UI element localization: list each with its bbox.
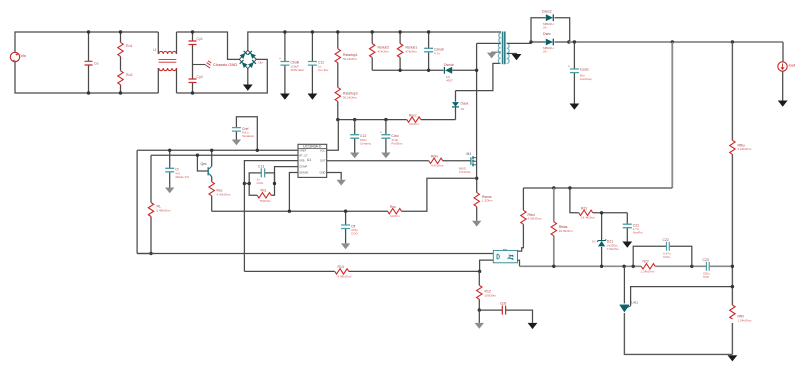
capacitor Cy1 bbox=[189, 32, 203, 65]
capacitor Cp5 bbox=[479, 301, 532, 323]
diode Daux bbox=[452, 91, 469, 120]
svg-text:1kOhm: 1kOhm bbox=[390, 214, 400, 218]
resistor R13 bbox=[335, 265, 480, 278]
ground Ct bbox=[165, 188, 174, 194]
svg-text:750Ohm: 750Ohm bbox=[260, 199, 272, 203]
svg-text:+: + bbox=[568, 65, 570, 69]
svg-text:JointCap: JointCap bbox=[580, 77, 592, 81]
wire opto cathode riser bbox=[480, 260, 494, 271]
ground Rsens bbox=[472, 221, 481, 227]
wire bridge top output bbox=[248, 32, 501, 50]
svg-text:20.5kOhm: 20.5kOhm bbox=[559, 229, 573, 233]
svg-text:Rvcc: Rvcc bbox=[409, 114, 417, 118]
resistor Ru2 bbox=[118, 71, 133, 93]
svg-text:C23: C23 bbox=[703, 258, 709, 262]
svg-text:4.99kOhm: 4.99kOhm bbox=[338, 274, 352, 278]
capacitor C21 bbox=[623, 213, 643, 242]
svg-text:X7R: X7R bbox=[703, 275, 710, 279]
source Vin bbox=[10, 52, 26, 61]
ground bridge bbox=[243, 69, 253, 91]
svg-text:1.3Ohm: 1.3Ohm bbox=[482, 199, 493, 203]
diode Dsec bbox=[529, 32, 569, 53]
svg-text:SENSE: SENSE bbox=[299, 171, 308, 175]
svg-text:dRatio:0.5: dRatio:0.5 bbox=[175, 175, 189, 179]
svg-text:5V: 5V bbox=[592, 240, 596, 244]
capacitor C13 bbox=[249, 164, 274, 185]
wire drain line bbox=[476, 43, 478, 155]
ground Cft bbox=[341, 243, 350, 249]
capacitor Cy2 bbox=[189, 65, 203, 94]
svg-text:Daux: Daux bbox=[461, 102, 469, 106]
svg-text:100Ohm: 100Ohm bbox=[485, 293, 497, 297]
diode Dsec2 bbox=[531, 10, 571, 44]
resistor Rstartup2 bbox=[335, 87, 358, 119]
svg-text:R22: R22 bbox=[643, 260, 649, 264]
svg-text:+: + bbox=[380, 131, 382, 135]
svg-text:Cy1: Cy1 bbox=[197, 37, 203, 41]
svg-text:COG: COG bbox=[351, 232, 359, 236]
svg-text:Dsec: Dsec bbox=[543, 32, 551, 36]
svg-text:VREF: VREF bbox=[299, 148, 307, 152]
svg-text:+: + bbox=[279, 57, 281, 61]
ground Cp5 bbox=[528, 323, 538, 329]
svg-text:2A: 2A bbox=[543, 49, 547, 53]
resistor R21 bbox=[570, 188, 627, 220]
svg-text:OUT: OUT bbox=[320, 159, 326, 163]
resistor Rsens bbox=[474, 177, 493, 221]
svg-text:47kOhm: 47kOhm bbox=[378, 49, 390, 53]
ground transformer secondary tap bbox=[507, 53, 522, 60]
resistor RL bbox=[137, 150, 171, 255]
svg-text:Ceramic: Ceramic bbox=[360, 141, 372, 145]
wire secondary control rail bbox=[523, 187, 672, 189]
svg-text:Rdrv: Rdrv bbox=[431, 155, 438, 159]
resistor R12 bbox=[477, 271, 497, 311]
wire pin OUT gate line bbox=[327, 160, 429, 162]
resistor Rdrv bbox=[429, 155, 471, 168]
capacitor Cvcc bbox=[380, 120, 403, 153]
svg-text:47kOhm: 47kOhm bbox=[406, 49, 418, 53]
wire pin VCC bbox=[327, 120, 339, 151]
wire current sense line bbox=[212, 178, 477, 211]
capacitor Csnub bbox=[424, 30, 444, 70]
diode D21 zener bbox=[592, 211, 619, 266]
svg-text:M1: M1 bbox=[467, 152, 472, 156]
ground Cout1 bbox=[570, 104, 580, 110]
svg-text:1N: 1N bbox=[461, 107, 465, 111]
svg-text:Cout1: Cout1 bbox=[580, 68, 589, 72]
svg-text:Ru1: Ru1 bbox=[126, 44, 133, 48]
svg-text:Cy2: Cy2 bbox=[197, 75, 203, 79]
node Chassis GND bbox=[191, 30, 238, 94]
resistor Rbias bbox=[551, 188, 573, 266]
resistor R11 bbox=[243, 182, 276, 203]
svg-text:450V Elec: 450V Elec bbox=[291, 68, 305, 72]
ground secondary bottom bbox=[728, 355, 738, 361]
svg-text:Cer 2kv: Cer 2kv bbox=[318, 68, 329, 72]
ground R12 bbox=[475, 310, 484, 329]
svg-text:Ru2: Ru2 bbox=[126, 73, 133, 77]
svg-text:Cp5: Cp5 bbox=[500, 301, 506, 305]
resistor Rec bbox=[209, 176, 231, 211]
wire secondary common line bbox=[520, 265, 733, 267]
resistor Rsnub1 bbox=[397, 30, 417, 70]
svg-text:4.42kOhm: 4.42kOhm bbox=[217, 192, 231, 196]
svg-text:Dsnub: Dsnub bbox=[444, 63, 454, 67]
svg-text:1.24kOhm: 1.24kOhm bbox=[738, 318, 752, 322]
svg-text:1.24kOhm: 1.24kOhm bbox=[641, 270, 655, 274]
svg-text:R21: R21 bbox=[581, 206, 587, 210]
wire output rail bbox=[569, 41, 783, 43]
svg-text:VCC: VCC bbox=[320, 148, 326, 152]
node input top junctions bbox=[87, 30, 122, 94]
svg-text:Tantalum: Tantalum bbox=[242, 134, 255, 138]
svg-text:VFB: VFB bbox=[299, 159, 304, 163]
svg-text:R13: R13 bbox=[338, 265, 344, 269]
svg-text:2A: 2A bbox=[543, 25, 547, 29]
svg-text:Vin: Vin bbox=[21, 53, 27, 58]
capacitor Cref bbox=[232, 117, 259, 152]
svg-text:UC1843A-D: UC1843A-D bbox=[303, 145, 322, 149]
svg-text:10Ohm: 10Ohm bbox=[409, 122, 419, 126]
wire pin SENSE bbox=[289, 173, 298, 212]
wire vref to opto anode bbox=[137, 253, 493, 255]
capacitor C23 bbox=[703, 258, 711, 279]
shunt regulator U4 TL431 bbox=[620, 266, 639, 312]
resistor R22 bbox=[641, 260, 656, 274]
capacitor Cft bbox=[341, 210, 358, 244]
svg-text:GND: GND bbox=[320, 171, 326, 175]
diode bridge Dbr bbox=[239, 50, 263, 68]
svg-text:4.22kOhm: 4.22kOhm bbox=[738, 147, 752, 151]
ground transformer primary tap bbox=[487, 52, 501, 58]
svg-text:56.2kOhm: 56.2kOhm bbox=[343, 95, 357, 99]
wire pin RT_CT line bbox=[151, 154, 298, 156]
wire output to control rail drop bbox=[671, 42, 673, 188]
svg-text:4937: 4937 bbox=[446, 78, 453, 82]
svg-text:4.42Ohm: 4.42Ohm bbox=[431, 164, 444, 168]
common-mode choke L1 bbox=[153, 32, 177, 93]
svg-text:U1: U1 bbox=[307, 158, 311, 162]
transistor Qec bbox=[196, 149, 214, 177]
ground C11 bbox=[308, 94, 318, 100]
wire pin VREF line bbox=[137, 149, 298, 151]
resistor Rled bbox=[521, 188, 542, 245]
ground Cbulk bbox=[280, 94, 290, 100]
capacitor Cout1 bbox=[568, 42, 592, 104]
optocoupler U3 bbox=[493, 249, 517, 263]
svg-text:NonPol: NonPol bbox=[633, 231, 643, 235]
resistor Rstartup1 bbox=[335, 30, 358, 87]
svg-text:RT_CT: RT_CT bbox=[299, 153, 308, 157]
transistor M1 bbox=[459, 152, 477, 179]
svg-text:Rcs: Rcs bbox=[390, 205, 396, 209]
capacitor C22 bbox=[633, 238, 692, 266]
resistor Ru1 bbox=[118, 32, 133, 71]
svg-text:4.7n: 4.7n bbox=[434, 51, 440, 55]
svg-text:Iout: Iout bbox=[789, 63, 797, 68]
svg-text:C22: C22 bbox=[663, 238, 669, 242]
wire vcc rail bbox=[338, 119, 407, 121]
capacitor Ct bbox=[165, 149, 189, 188]
svg-text:56.2kOhm: 56.2kOhm bbox=[343, 57, 357, 61]
svg-text:Dbr: Dbr bbox=[259, 61, 264, 65]
svg-text:Dsec2: Dsec2 bbox=[542, 10, 552, 14]
svg-text:COG: COG bbox=[257, 181, 265, 185]
wire pin GND bbox=[327, 173, 346, 186]
resistor Rsnub2 bbox=[370, 30, 390, 70]
svg-text:Chassis GND: Chassis GND bbox=[213, 62, 237, 67]
svg-text:14.4kOhm: 14.4kOhm bbox=[581, 216, 595, 220]
wire pin COMP bbox=[275, 167, 299, 184]
svg-text:R11: R11 bbox=[261, 188, 267, 192]
resistor Rfbu bbox=[730, 140, 752, 154]
svg-text:COMP: COMP bbox=[299, 165, 307, 169]
svg-text:7.5kOhm: 7.5kOhm bbox=[607, 247, 620, 251]
resistor Rcs bbox=[388, 205, 402, 218]
svg-text:5.49kOhm: 5.49kOhm bbox=[157, 208, 171, 212]
ground Cvcc bbox=[381, 153, 390, 159]
op-amp U1 UC1843A-D bbox=[298, 144, 327, 177]
wire TL431 ref line bbox=[631, 287, 733, 306]
resistor Rfbl bbox=[730, 305, 752, 322]
ground Iout bbox=[778, 101, 788, 107]
diode Dsnub bbox=[444, 63, 477, 82]
resistor Rvcc bbox=[407, 114, 456, 127]
svg-text:4.02kOhm: 4.02kOhm bbox=[528, 217, 542, 221]
svg-text:Pol:Elec: Pol:Elec bbox=[391, 141, 403, 145]
wire pin VFB drop bbox=[244, 161, 298, 272]
capacitor Ce bbox=[85, 32, 99, 93]
wire choke to bridge top bbox=[177, 32, 240, 59]
wire choke to bridge bottom bbox=[177, 59, 268, 93]
wire vfb line to R13 bbox=[244, 270, 334, 272]
svg-text:0.54Ohm: 0.54Ohm bbox=[459, 170, 471, 174]
transformer T1 bbox=[477, 32, 531, 65]
capacitor C12 bbox=[350, 120, 371, 153]
capacitor Cbulk bbox=[279, 30, 305, 93]
svg-text:Qec: Qec bbox=[201, 162, 208, 166]
svg-text:COG: COG bbox=[663, 255, 671, 259]
ground C21 bbox=[622, 242, 632, 248]
wire aux winding line bbox=[456, 63, 501, 90]
wire feedback divider vertical bbox=[731, 42, 733, 354]
source Iout bbox=[778, 42, 796, 101]
svg-text:Ce: Ce bbox=[94, 62, 99, 66]
svg-text:L1: L1 bbox=[153, 48, 157, 52]
wire opto emitter to secondary common bbox=[518, 260, 520, 266]
wire input top rail bbox=[15, 32, 158, 93]
ground Cref bbox=[232, 140, 241, 146]
svg-text:C13: C13 bbox=[258, 164, 264, 168]
capacitor C11 bbox=[308, 30, 329, 93]
wire opto collector riser bbox=[518, 245, 524, 251]
wire snubber bottom rail bbox=[372, 69, 443, 71]
ground C12 bbox=[350, 153, 359, 159]
wire secondary bottom return bbox=[624, 313, 732, 354]
